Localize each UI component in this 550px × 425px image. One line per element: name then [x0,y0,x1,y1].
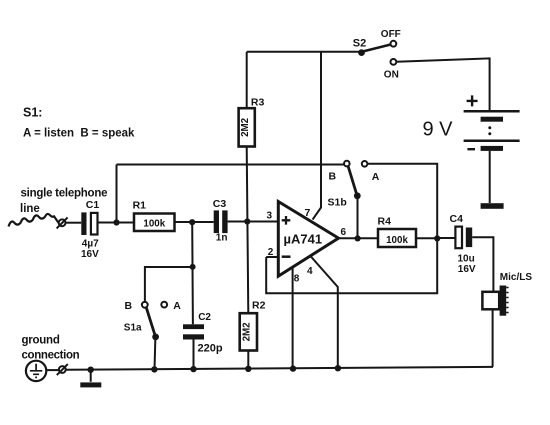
pin 8 wire to rail [292,267,294,368]
battery second thick plate [481,146,503,151]
svg-text:single telephone: single telephone [21,188,108,200]
svg-text:S1b: S1b [328,197,347,209]
wire R3 top lead [246,52,248,108]
node junction pin8/rail [290,365,296,371]
capacitor C4 [455,227,462,249]
wire battery minus lead [489,151,491,203]
resistor R3 [239,108,255,146]
svg-text:1n: 1n [216,233,228,244]
resistor R4 [378,229,416,247]
svg-text:100k: 100k [386,235,408,246]
op-amp minus input marking [282,255,291,258]
node junction R2/ground rail [245,366,251,372]
wire speaker bottom to rail [492,309,494,367]
svg-text:2M2: 2M2 [241,322,252,342]
speaker Mic/LS [482,292,499,310]
battery top long plate [464,110,520,113]
svg-text:R2: R2 [252,300,266,312]
svg-text:100k: 100k [143,219,165,230]
pin 4 wire to rail [310,256,338,368]
svg-text:S1:: S1: [23,106,42,120]
resistor R1 [134,214,175,232]
switch S1b contact B [344,161,350,167]
svg-text:C2: C2 [198,312,211,323]
wire feedback loop pin2 to output node [266,238,437,293]
switch S1b contact A [362,161,368,167]
wire earth to terminal [46,369,59,371]
svg-text:6: 6 [341,227,347,238]
svg-text:connection: connection [22,350,80,362]
svg-text:7: 7 [305,207,311,219]
wire R1 to C3 [175,221,214,223]
op-amp plus input marking [282,216,291,225]
wire R4 to node [416,237,437,239]
node junction S1a-B wire [190,264,196,270]
switch S1a contact A [161,302,167,308]
ground stub and chassis bar [90,370,92,382]
wire S1a contact B up and over [145,267,193,302]
wire bias horizontal y164 to S1b contact B [117,164,345,166]
svg-text:2M2: 2M2 [240,117,251,137]
svg-text:C1: C1 [86,199,100,211]
wire terminal to C1 [66,222,82,224]
svg-text:R4: R4 [378,216,392,228]
wire telephone line squiggle [9,214,59,227]
wire node to C4 [437,237,455,239]
wire V+ top rail from R3 top to S2 [247,51,359,53]
svg-text:R1: R1 [133,200,147,212]
wire C4 to speaker [472,237,493,291]
svg-text:16V: 16V [81,249,99,260]
svg-text:C3: C3 [213,198,227,210]
battery minus sign [467,148,475,150]
wire S1a pole to rail [154,337,157,370]
switch S1b arm [354,192,361,199]
svg-text:220p: 220p [198,343,223,355]
wire R1-node down to C2 [191,222,194,324]
pin 2 wire [266,256,278,258]
svg-text:B: B [329,171,337,183]
battery bottom terminal bar (ground) [481,203,504,209]
battery dots [488,126,491,129]
terminal ground plug [59,366,66,373]
svg-text:C4: C4 [450,213,464,225]
svg-text:line: line [20,203,40,215]
node junction pin4/rail [335,365,341,371]
svg-text:S2: S2 [353,38,366,50]
svg-text:R3: R3 [251,97,265,109]
battery short thick plate [481,117,503,122]
node junction S1b pole/output [355,235,361,241]
svg-text:A: A [372,171,380,183]
svg-text:4: 4 [307,266,313,277]
wire R2 bottom lead [247,351,249,369]
wire S1b contact A to output node [367,164,437,239]
node junction S1a/rail [151,366,157,372]
wire R3 bottom to R2 top (bias column) [247,146,249,313]
svg-text:ground: ground [22,335,60,347]
ground rail wire [66,367,493,370]
pin 6 wire op-amp output to R4 [339,237,379,239]
node junction C2/rail [190,366,196,372]
wire bias vertical down to C1/R1 node [116,165,118,223]
svg-text:8: 8 [294,274,300,285]
pin 7 wire [313,52,321,220]
capacitor C2 [183,324,204,329]
node junction R1 output [189,219,195,225]
resistor R2 [240,313,257,350]
wire C2 bottom lead [193,340,195,370]
battery BT1 9V plus sign [467,95,478,106]
svg-text:B: B [125,300,133,312]
svg-text:S1a: S1a [124,323,142,334]
capacitor C1 [81,212,86,235]
svg-text:16V: 16V [458,264,476,275]
switch S1a contact B [142,302,148,308]
svg-text:Mic/LS: Mic/LS [500,272,533,283]
svg-text:A = listen B = speak: A = listen B = speak [23,128,135,140]
S2 contact OFF [391,41,397,47]
wire S1b pole down to output [357,196,359,238]
wire C1 to R1 [98,222,134,224]
svg-text:2: 2 [268,247,274,258]
battery second long plate [464,139,520,142]
svg-text:3: 3 [267,211,273,222]
node junction at C1/R1 [113,219,119,225]
wire ON contact to battery + [397,58,490,110]
svg-text:OFF: OFF [381,29,401,40]
wire C3 to pin 3 [228,221,279,223]
svg-text:9 V: 9 V [423,118,454,140]
S2 contact ON [391,59,397,65]
node junction ground stub [88,367,94,373]
earth electrode symbol [26,361,46,381]
node junction bias/pin3 [244,218,250,224]
terminal input plug [59,219,66,226]
svg-text:ON: ON [384,70,399,81]
node junction output/R4/C4 [434,235,440,241]
op-amp U1 triangle [278,202,338,277]
capacitor C3 [214,210,219,233]
svg-text:µA741: µA741 [284,232,323,247]
switch S1a arm [146,307,155,336]
svg-text:A: A [173,300,181,312]
